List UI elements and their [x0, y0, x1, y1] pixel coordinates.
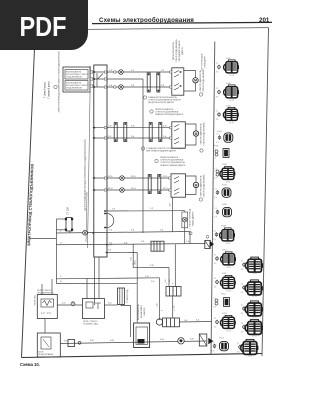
svg-text:КР-Ч: КР-Ч [108, 188, 113, 190]
fuse vertical block right of relays [118, 288, 130, 305]
wire bus to lock splice [106, 210, 185, 212]
svg-text:ч: ч [166, 283, 167, 285]
bus internal jumper [97, 73, 103, 87]
svg-text:Э 02: Э 02 [226, 83, 231, 85]
svg-text:Э 06: Э 06 [222, 164, 227, 166]
bus label leader line lower [86, 192, 87, 242]
svg-text:4 3: 4 3 [211, 350, 214, 352]
relay 2 box [82, 299, 104, 319]
svg-text:ПОДЪЕМНИКОВ: ПОДЪЕМНИКОВ [37, 292, 54, 294]
svg-text:ПРЕДОХРАНИТ.: ПРЕДОХРАНИТ. [38, 353, 54, 356]
svg-text:4 3: 4 3 [216, 71, 219, 73]
svg-text:(ВОДИТЕЛЬСКОЙ) ДВЕРИ: (ВОДИТЕЛЬСКОЙ) ДВЕРИ [148, 101, 174, 104]
unit1 motor [193, 78, 198, 83]
svg-text:2 1: 2 1 [216, 110, 219, 112]
svg-text:Схема 10.: Схема 10. [20, 362, 40, 367]
svg-text:4 3: 4 3 [213, 306, 216, 308]
bus bottom exits [95, 252, 138, 305]
circled digit unit2 lower [141, 147, 144, 150]
unit2 connector bars right [149, 123, 162, 142]
svg-text:СТЕКЛОПОДЪЕМНИКА: СТЕКЛОПОДЪЕМНИКА [175, 39, 178, 63]
left feeder vertical [55, 219, 57, 284]
unit 2 wires [93, 128, 172, 138]
header underline [92, 22, 272, 23]
page frame left [22, 48, 35, 358]
bottom long run y=342.5 [60, 341, 206, 344]
svg-text:4 3: 4 3 [214, 197, 217, 199]
svg-text:2 1: 2 1 [241, 283, 244, 285]
svg-text:Э 12: Э 12 [221, 294, 226, 296]
main switch unit box bottom [134, 323, 150, 348]
svg-text:12 11: 12 11 [252, 296, 256, 298]
svg-text:КР-Б: КР-Б [131, 176, 136, 178]
svg-text:2 1: 2 1 [214, 318, 217, 320]
drop at end of run233 [189, 232, 191, 244]
svg-text:4 3: 4 3 [216, 142, 219, 144]
harness bus rectangle [94, 65, 107, 257]
unit 1: wires from bus [93, 72, 172, 233]
svg-text:1 2: 1 2 [41, 311, 45, 315]
rotated wire labels lower-middle [131, 257, 176, 309]
svg-text:С ЗАДНИЙ ЭЛЕКТРОСТЕКЛОПОДЪЕМ-: С ЗАДНИЙ ЭЛЕКТРОСТЕКЛОПОДЪЕМ- [146, 147, 185, 150]
svg-text:12 11: 12 11 [230, 100, 234, 102]
pin squares on bus and unit boxes [104, 71, 171, 191]
svg-text:СТЕКЛОПОДЪЕМНИКА: СТЕКЛОПОДЪЕМНИКА [155, 111, 179, 114]
fuse CT 30A [66, 218, 72, 232]
svg-text:2 1: 2 1 [214, 278, 217, 280]
svg-text:12 11: 12 11 [226, 243, 230, 245]
legend row 14 left connector [220, 341, 229, 350]
unit1 motor loop [184, 71, 196, 92]
svg-text:12 11: 12 11 [226, 181, 230, 183]
svg-text:12 11: 12 11 [252, 335, 256, 337]
svg-text:Э 07: Э 07 [222, 185, 227, 187]
svg-text:PDF: PDF [20, 12, 67, 42]
svg-text:Б-Ж: Б-Ж [110, 340, 114, 342]
small ring bottom run [78, 341, 81, 344]
svg-text:4 3: 4 3 [213, 157, 216, 159]
svg-text:12 11: 12 11 [248, 355, 252, 357]
svg-text:4 3: 4 3 [241, 292, 244, 294]
svg-text:ЖГУТ ПРОВОДОВ: ЖГУТ ПРОВОДОВ [202, 53, 204, 71]
pin squares after bus unit1 [114, 71, 116, 73]
legend row 5 connector [223, 149, 229, 158]
svg-text:2 1: 2 1 [214, 208, 217, 210]
svg-text:Э 13: Э 13 [222, 313, 227, 315]
legend row 12 right connector [245, 301, 263, 316]
inline connector circle relay row [71, 302, 75, 306]
svg-text:2 1: 2 1 [211, 342, 214, 344]
inline component before divider on run 244 [205, 240, 210, 248]
svg-text:4 3: 4 3 [214, 286, 217, 288]
svg-text:ЖГУТ ПРОВОДОВ ПАНЕЛИ ПРИБОРОВ: ЖГУТ ПРОВОДОВ ПАНЕЛИ ПРИБОРОВ (СОЕДИНИТЕ… [84, 139, 87, 210]
svg-text:4 3: 4 3 [241, 313, 244, 315]
unit1 caption below [148, 96, 181, 104]
svg-text:4 3: 4 3 [214, 216, 217, 218]
circled digit unit3 [155, 159, 158, 162]
svg-text:ПЕРЕДНИЙ: ПЕРЕДНИЙ [204, 56, 207, 68]
page frame top [88, 28, 269, 30]
splice on run 233 [83, 230, 88, 235]
circled digit unit2 [150, 110, 153, 113]
unit 3 wires [93, 178, 171, 190]
svg-text:СТЕКЛОПОДЪЕМНИКА: СТЕКЛОПОДЪЕМНИКА [203, 122, 206, 146]
svg-text:12 11: 12 11 [226, 330, 230, 332]
bus edge dots unit3 [93, 177, 107, 191]
legend row 11 left connector [220, 275, 235, 288]
pin squares lock box [90, 71, 92, 87]
svg-text:ПЕРЕДНЕЙ ПРАВОЙ: ПЕРЕДНЕЙ ПРАВОЙ [178, 40, 181, 61]
legend row 3 connector [223, 107, 238, 120]
unit1 connector bars [147, 73, 160, 92]
svg-text:Б-Ж: Б-Ж [160, 339, 164, 341]
legend row 7 connector [222, 188, 231, 197]
svg-text:КР-Ч: КР-Ч [163, 188, 168, 190]
unit3 motor caption [200, 174, 206, 198]
svg-text:2 1: 2 1 [241, 323, 244, 325]
legend tiny side labels [211, 63, 243, 354]
unit2 motor caption [200, 122, 206, 146]
svg-text:КР-Ч: КР-Ч [131, 188, 136, 190]
unit3 motor loop [186, 176, 197, 195]
svg-text:ПЕРЕКЛЮЧАТЕЛЬ: ПЕРЕКЛЮЧАТЕЛЬ [155, 108, 174, 111]
svg-text:4 3: 4 3 [214, 326, 217, 328]
splice under unit3 [182, 212, 188, 228]
legend row 13 right connector [245, 319, 263, 334]
svg-text:4 3: 4 3 [216, 96, 219, 98]
svg-text:СТЕКЛОПОДЪЕМНИКА: СТЕКЛОПОДЪЕМНИКА [203, 174, 206, 198]
inline connector on bottom run [178, 338, 184, 344]
inline component before divider bottom run [199, 334, 207, 346]
svg-text:КР-Б: КР-Б [163, 176, 168, 178]
unit1 switch box [172, 68, 184, 95]
svg-text:ПОДЪЕМ. ЗАД.: ПОДЪЕМ. ЗАД. [83, 322, 99, 325]
svg-text:12 11: 12 11 [229, 122, 233, 124]
wires lock box to bus [90, 72, 94, 86]
svg-text:2 1: 2 1 [214, 188, 217, 190]
svg-text:4 3: 4 3 [213, 239, 216, 241]
PDF badge [0, 0, 88, 50]
bus label line [88, 66, 91, 248]
legend row 9 connector [220, 228, 235, 241]
unit1 vertical caption above box [172, 39, 184, 63]
legend row 11 right connector [245, 280, 263, 295]
unit2 motor [193, 131, 198, 136]
svg-text:Э 01: Э 01 [226, 58, 231, 60]
page frame right [262, 28, 269, 356]
unit 2 caption above [155, 108, 184, 116]
inline fuse bottom run [68, 340, 75, 347]
svg-text:2 1: 2 1 [216, 88, 219, 90]
unit2 caption below [146, 147, 185, 153]
svg-text:З-Ж: З-Ж [145, 276, 149, 278]
svg-text:ПРАВОЙ ПЕРЕДНЕЙ ДВЕРИ: ПРАВОЙ ПЕРЕДНЕЙ ДВЕРИ [155, 113, 184, 116]
drop to ignition box [136, 283, 138, 322]
unit3 splice circles [120, 176, 125, 181]
bus edge dots unit1 [93, 71, 107, 88]
svg-text:КР-Б: КР-Б [108, 176, 113, 178]
svg-text:4 3: 4 3 [241, 331, 244, 333]
unit 3 caption above [160, 156, 186, 167]
hatched inline connector y=291 [166, 287, 181, 297]
svg-text:З-Ж: З-Ж [108, 126, 112, 128]
circled digit unit1 [143, 96, 146, 99]
svg-text:Э 08: Э 08 [222, 204, 227, 206]
legend divider line [211, 42, 215, 356]
svg-text:4 3: 4 3 [214, 263, 217, 265]
svg-text:Э 11: Э 11 [222, 273, 227, 275]
svg-text:2 1: 2 1 [237, 343, 240, 345]
legend row 12 left connector [224, 298, 230, 307]
svg-text:Э 14: Э 14 [219, 338, 224, 340]
svg-text:ЗАМКА ДВЕРИ: ЗАМКА ДВЕРИ [192, 211, 195, 226]
svg-text:ВЫКЛЮЧАТЕЛЬ: ВЫКЛЮЧАТЕЛЬ [137, 303, 140, 319]
svg-text:ПЕРЕКЛЮЧАТЕЛЬ: ПЕРЕКЛЮЧАТЕЛЬ [172, 41, 175, 60]
arrow into divider bottom run [208, 338, 213, 344]
svg-text:СТЕКЛОПОДЪЕМНИКОВ ЛЕВОЙ: СТЕКЛОПОДЪЕМНИКОВ ЛЕВОЙ [148, 99, 181, 102]
wire labels unit3 [108, 176, 168, 190]
unit2 switch box [172, 122, 186, 148]
svg-text:2 1: 2 1 [214, 254, 217, 256]
bus bottom edge dots [106, 244, 108, 246]
svg-text:С ЭЛЕКТРОПРИВОД: С ЭЛЕКТРОПРИВОД [190, 208, 192, 229]
unit2 connector bars left [114, 123, 127, 142]
svg-text:2 1: 2 1 [216, 133, 219, 135]
svg-text:ПРАВОЙ ЗАДНЕЙ ДВЕРИ: ПРАВОЙ ЗАДНЕЙ ДВЕРИ [160, 164, 186, 167]
svg-text:Б-Ж: Б-Ж [64, 341, 68, 343]
circled digit unit2 motor [200, 149, 203, 152]
svg-text:3 4: 3 4 [47, 311, 51, 315]
jumper loop on bus right [106, 214, 114, 228]
svg-text:З-Ж: З-Ж [150, 265, 154, 267]
run y=283.5 [56, 282, 137, 284]
legend row 2 connector [224, 85, 239, 98]
legend row 4 connector [224, 133, 233, 142]
svg-text:2 1: 2 1 [241, 261, 244, 263]
svg-text:Э 05: Э 05 [214, 146, 219, 148]
svg-text:2 1: 2 1 [213, 230, 216, 232]
svg-text:РЕЛЕ ЭПС: РЕЛЕ ЭПС [35, 294, 37, 305]
svg-text:2 1: 2 1 [213, 298, 216, 300]
drop to lower block [159, 278, 161, 320]
unit3 connector bars [148, 175, 161, 194]
svg-text:З-Ж: З-Ж [108, 245, 112, 247]
page frame bottom [22, 354, 263, 358]
svg-text:ДВЕРИ: ДВЕРИ [182, 47, 184, 55]
svg-text:2 1: 2 1 [241, 304, 244, 306]
margin tiny labels top-left [44, 81, 51, 99]
misc tiny captions near divider top [202, 53, 207, 71]
legend row 10 right connector [245, 257, 263, 272]
run y=278.5 [56, 278, 159, 279]
header title [99, 17, 270, 24]
svg-text:12 11: 12 11 [253, 273, 257, 275]
svg-text:4 3: 4 3 [241, 269, 244, 271]
svg-text:ЭЛЕКТРОДВИГАТЕЛЬ: ЭЛЕКТРОДВИГАТЕЛЬ [200, 175, 203, 197]
wire colour labels [60, 208, 200, 342]
wire labels unit1 [109, 70, 165, 87]
unit2 motor loop [185, 124, 196, 145]
relay row wires [42, 278, 118, 333]
svg-text:СТЕКЛОПОД.: СТЕКЛОПОД. [127, 289, 129, 303]
svg-text:ЭЛЕКТРОДВИГАТЕЛЬ: ЭЛЕКТРОДВИГАТЕЛЬ [200, 123, 203, 145]
fuse block box bottom-left [37, 333, 60, 357]
captions above bottom box [137, 303, 146, 319]
hatched inline connector y=322 [156, 318, 179, 327]
svg-text:2 1: 2 1 [214, 169, 217, 171]
window-lock control unit box [63, 67, 90, 92]
svg-text:12 11: 12 11 [252, 317, 256, 319]
svg-text:СТЕКЛОПОДЪЕМНИКА: СТЕКЛОПОДЪЕМНИКА [202, 69, 205, 93]
long run y=244.5 [56, 244, 205, 245]
svg-text:12 11: 12 11 [226, 290, 230, 292]
svg-text:Б-Ж: Б-Ж [90, 340, 94, 342]
unit3 motor [193, 182, 198, 187]
svg-text:7 (правый руль): 7 (правый руль) [48, 81, 51, 99]
legend row 14 right connector [241, 339, 259, 354]
legend row 1 connector [224, 60, 239, 73]
svg-text:Ж: Ж [60, 281, 62, 283]
wire fuse to lower box [121, 305, 131, 338]
svg-text:ПОДЪЕМНИКОВ: ПОДЪЕМНИКОВ [66, 88, 82, 90]
svg-text:З-Ж: З-Ж [131, 257, 133, 261]
svg-text:2 1: 2 1 [213, 149, 216, 151]
wires around fuse [29, 219, 70, 239]
svg-text:12 11: 12 11 [227, 267, 231, 269]
wire labels unit2 [108, 126, 167, 138]
circled digit unit3 motor [199, 198, 202, 201]
svg-text:Б-Ж: Б-Ж [190, 339, 194, 341]
legend row 13 left connector [220, 315, 235, 328]
arrow into divider run 244 [210, 241, 214, 247]
svg-text:СТЕКЛОПОДЪЕМНИКА: СТЕКЛОПОДЪЕМНИКА [160, 159, 184, 162]
legend row 6 connector [220, 166, 235, 179]
circled digit unit1 motor [199, 93, 202, 96]
legend pin rows [226, 75, 257, 358]
wire unit3 down [173, 197, 185, 244]
svg-text:4 3: 4 3 [214, 177, 217, 179]
svg-text:З-Ж: З-Ж [132, 264, 136, 266]
svg-text:ГЛАВНЫЙ ПЕРЕКЛЮЧАТЕЛЬ: ГЛАВНЫЙ ПЕРЕКЛЮЧАТЕЛЬ [148, 96, 177, 99]
svg-text:Э 10: Э 10 [222, 250, 227, 252]
svg-text:12 11: 12 11 [230, 75, 234, 77]
long run y=233 [56, 232, 190, 234]
svg-text:Э 03: Э 03 [226, 106, 231, 108]
svg-text:2 1: 2 1 [216, 63, 219, 65]
unit3 switch box [171, 174, 186, 197]
legend row 10 left connector [221, 252, 236, 265]
svg-text:Э 09: Э 09 [221, 226, 226, 228]
svg-text:4 3: 4 3 [216, 119, 219, 121]
legend row 8 connector [223, 207, 232, 216]
svg-text:7 (левый руль): 7 (левый руль) [44, 82, 47, 99]
svg-text:4 3: 4 3 [237, 351, 240, 353]
svg-text:(ЗАМОК): (ЗАМОК) [143, 307, 146, 316]
hatched inline connector on run 244 [151, 241, 164, 251]
unit1 motor caption [199, 69, 205, 93]
relay1 caption above [37, 290, 54, 294]
unit1 splice circles [119, 70, 124, 75]
svg-text:ПЕРЕКЛЮЧАТЕЛЬ: ПЕРЕКЛЮЧАТЕЛЬ [160, 156, 179, 159]
svg-text:ЭЛЕКТРОДВИГАТЕЛЬ: ЭЛЕКТРОДВИГАТЕЛЬ [199, 70, 202, 92]
svg-text:З-Ж: З-Ж [163, 126, 167, 128]
run y=322 to divider [179, 321, 212, 324]
svg-text:ЗАЖИГАНИЯ: ЗАЖИГАНИЯ [140, 305, 143, 318]
svg-text:ч: ч [174, 310, 175, 312]
svg-text:НИК ПРАВОЙ ЗАДНЕЙ ДВЕРИ: НИК ПРАВОЙ ЗАДНЕЙ ДВЕРИ [146, 150, 177, 153]
svg-text:ПОДЪЕМНИКОВ: ПОДЪЕМНИКОВ [66, 77, 82, 79]
svg-text:З-Ж: З-Ж [131, 126, 135, 128]
svg-text:ЭЛЕКТРОПРИВОД БЛОКИРОВКИ СТЕКЛ: ЭЛЕКТРОПРИВОД БЛОКИРОВКИ СТЕКЛОПОДЪЕМНИК… [59, 51, 61, 113]
circled reference digit at lock box [54, 85, 57, 88]
relay 1 box [37, 295, 57, 319]
bus edge dots unit2 [93, 127, 107, 139]
svg-text:СТ 30А: СТ 30А [67, 207, 70, 215]
